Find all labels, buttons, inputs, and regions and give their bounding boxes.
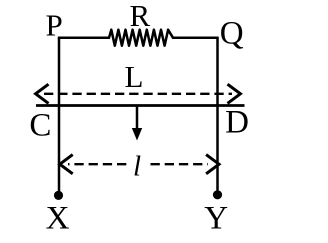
dimension line l (dashed double arrow) (60, 155, 219, 174)
label D (225, 105, 249, 141)
svg-text:Y: Y (204, 201, 228, 237)
wire: top right lead resistor to Q (173, 37, 219, 40)
velocity arrow (down) (132, 107, 142, 141)
label L (125, 59, 144, 94)
wire: left vertical PX (58, 38, 61, 193)
dimension line L (dashed double arrow) (36, 84, 241, 103)
svg-text:R: R (130, 0, 151, 33)
svg-text:D: D (225, 105, 249, 141)
label P (46, 8, 63, 43)
terminal dot Y (213, 190, 222, 199)
label C (29, 108, 51, 144)
svg-text:L: L (125, 59, 144, 94)
label R (130, 0, 151, 33)
label Q (220, 16, 244, 52)
label Y (204, 201, 228, 237)
svg-text:C: C (29, 108, 51, 144)
label l (italic ell) (133, 151, 141, 183)
svg-text:X: X (46, 201, 70, 237)
wire: right vertical QY (216, 38, 219, 193)
wire: top left lead P to resistor (58, 37, 110, 40)
svg-text:l: l (133, 151, 141, 183)
rod CD (solid bar) (36, 104, 245, 107)
svg-text:Q: Q (220, 16, 244, 52)
terminal dot X (54, 191, 63, 200)
label X (46, 201, 70, 237)
resistor R (109, 30, 173, 46)
svg-text:P: P (46, 8, 63, 43)
